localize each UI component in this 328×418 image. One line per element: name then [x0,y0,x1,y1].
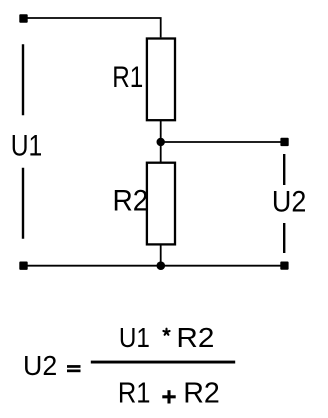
wire node A to TR terminal [161,141,285,143]
resistor R1 [147,39,175,121]
terminal TL [19,14,27,22]
fraction bar [91,361,235,364]
wire R2 bottom to node B [160,244,162,265]
terminal BL [19,262,27,270]
svg-text:U2: U2 [272,186,306,219]
resistor R2 [147,163,175,245]
svg-text:R2: R2 [113,185,149,218]
node A (junction dot) [157,138,165,146]
formula numerator: asterisk [163,329,169,335]
formula: equals sign [67,365,81,372]
U2 lead lower [283,223,285,253]
terminal BR [280,262,288,270]
wire node A to R2 top [160,142,162,163]
svg-text:U1: U1 [119,322,150,353]
terminal TR [280,138,288,146]
svg-text:R2: R2 [183,377,220,409]
wire top (TL terminal to R1 top) [27,18,161,37]
svg-text:R1: R1 [118,377,151,409]
svg-text:R1: R1 [112,61,143,94]
wire R1 bottom to node A [160,120,162,142]
wire bottom (BL to BR terminal) [27,265,281,267]
svg-text:R2: R2 [176,322,214,353]
U1 lead upper [22,44,24,115]
U2 lead upper [283,154,285,185]
node B (bottom junction dot) [157,261,166,270]
formula denominator: plus sign [162,390,175,403]
svg-text:U1: U1 [11,130,42,163]
svg-text:U2: U2 [23,350,57,381]
U1 lead lower [22,168,24,239]
